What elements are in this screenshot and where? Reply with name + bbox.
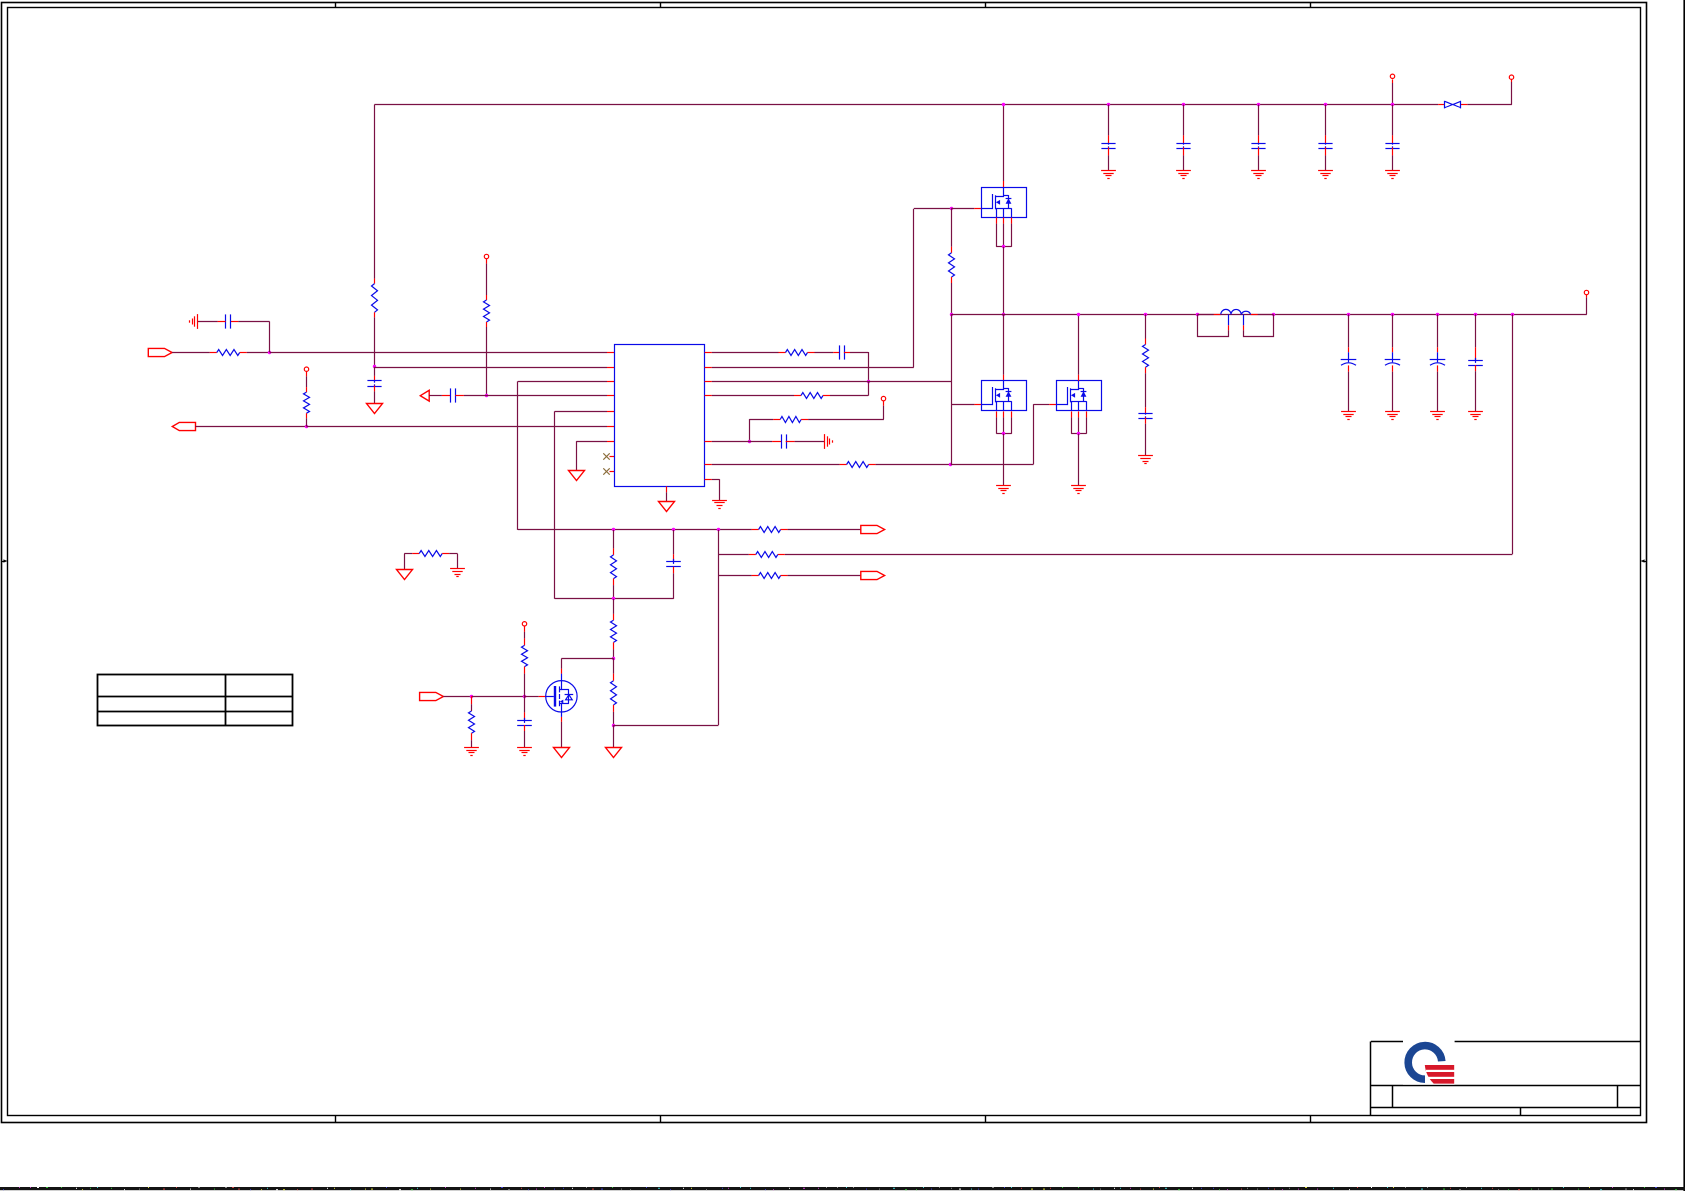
wire C5 to side ground xyxy=(786,441,795,443)
wire T1 to R3 xyxy=(486,259,488,300)
terminal T5 VIN right xyxy=(1509,75,1513,79)
node D junction xyxy=(305,425,308,428)
terminal T7 xyxy=(522,622,526,626)
wire node W to Q4 gate xyxy=(524,696,539,698)
wire pin5 drop xyxy=(555,411,615,598)
wire rail to C7 xyxy=(1183,105,1185,144)
wire node B to pin xyxy=(270,352,607,354)
capacitor C4 xyxy=(839,345,841,359)
wire P1 to R1 xyxy=(172,352,210,354)
wire C11 to ground xyxy=(1145,417,1147,455)
footer noise strip xyxy=(0,1187,1685,1190)
transistor Q3 xyxy=(1057,381,1102,411)
wire T3 to R9 xyxy=(801,401,884,420)
capacitor C9 xyxy=(1318,143,1332,145)
node Q junction xyxy=(1196,313,1199,316)
ground triangle pin7 xyxy=(569,471,585,481)
wire R7 to C4 xyxy=(815,352,834,354)
resistor R13 xyxy=(611,659,617,726)
wire SW mid rail xyxy=(951,314,1587,316)
wire node U to fb vertical xyxy=(614,725,719,727)
ground triangle under C2 xyxy=(367,404,383,414)
wire pin2R to M1 gate xyxy=(712,209,951,368)
resistor R12 xyxy=(611,599,617,659)
node A3 junction xyxy=(717,528,720,531)
terminal T1 xyxy=(484,254,488,258)
ground earth Q3 xyxy=(1071,485,1086,487)
transistor Q2 xyxy=(982,381,1027,411)
node S junction xyxy=(1511,313,1514,316)
node E junction xyxy=(867,380,870,383)
capacitor C11 xyxy=(1138,413,1152,415)
pin U1 right 1 xyxy=(705,352,712,354)
wire arrow to C3 xyxy=(429,395,442,397)
wire C10 to ground xyxy=(1392,147,1394,170)
pin U1 left 1 xyxy=(607,352,614,354)
resistor R18 xyxy=(522,645,528,666)
node U junction xyxy=(612,724,615,727)
node N junction xyxy=(1077,313,1080,316)
node B1 junction xyxy=(612,597,615,600)
wire VIN drop left xyxy=(374,105,376,284)
wire node U to ground xyxy=(613,725,615,747)
wire rail to C12 xyxy=(1348,314,1350,354)
wire R5 to mid rail xyxy=(951,277,953,314)
wire pin4R to R8 xyxy=(712,395,794,397)
ground triangle node U xyxy=(606,748,622,758)
resistor R15 xyxy=(749,552,785,558)
wire VOUT sense drop xyxy=(785,314,1513,554)
resistor R5 xyxy=(949,253,955,277)
capacitor C7 xyxy=(1176,143,1190,145)
pin U1 left 6 xyxy=(607,426,614,428)
wire R10 to node H xyxy=(876,464,951,466)
wire C17 to ground xyxy=(524,725,526,731)
wire pin7 to ground xyxy=(576,441,614,470)
node H junction xyxy=(949,463,952,466)
wire node F to Q1 gate xyxy=(951,208,974,210)
ground earth U1 right xyxy=(712,500,727,502)
wire node E down xyxy=(868,381,870,395)
wire Q3 drain from rail xyxy=(1078,314,1080,380)
node M junction xyxy=(1002,432,1005,435)
wire fb vertical xyxy=(718,530,720,725)
pin U1 right 8 xyxy=(705,464,712,466)
node C junction xyxy=(485,394,488,397)
wire node A to C2 xyxy=(374,367,376,382)
company logo xyxy=(1403,1040,1455,1084)
node F junction xyxy=(950,207,953,210)
pin U1 left 2 xyxy=(607,367,614,369)
wire C15 to ground xyxy=(1475,365,1477,411)
wire rail to C8 xyxy=(1258,105,1260,144)
ground earth C17 xyxy=(517,747,532,749)
wire Q4 drain xyxy=(561,659,614,681)
revision table xyxy=(98,675,293,726)
no-connect pin X1 xyxy=(603,453,614,459)
page right edge line xyxy=(1683,0,1685,1191)
resistor R11 xyxy=(611,530,617,599)
wire SW rail to terminal xyxy=(1586,295,1588,315)
ground side left of C1 xyxy=(197,314,199,329)
ground earth R19 right xyxy=(450,568,465,570)
node V junction xyxy=(470,695,473,698)
ground earth R17 xyxy=(464,747,479,749)
node L junction xyxy=(1002,313,1005,316)
wire node W to C17 xyxy=(524,696,526,720)
resistor R8 xyxy=(794,393,830,399)
capacitor C2 xyxy=(367,380,381,382)
wire T2 to R4 xyxy=(306,371,308,392)
node K junction xyxy=(1002,245,1005,248)
wire Q2 source tie xyxy=(996,411,1011,433)
wire C4 to node E xyxy=(844,352,869,381)
resistor R2 xyxy=(372,284,378,313)
wire R6 to C11 xyxy=(1145,367,1147,413)
port P5 xyxy=(420,692,444,700)
wire R3 to node C xyxy=(486,322,488,396)
wire R9 to node G xyxy=(749,419,780,441)
wire Q2 source to ground xyxy=(1003,434,1005,486)
ground triangle U1 bottom xyxy=(659,502,675,512)
wire gate net vertical xyxy=(951,209,953,253)
port P1 input xyxy=(148,348,172,356)
wire mid rail to Q2 drain xyxy=(1003,314,1005,380)
wire R8 to node E xyxy=(830,395,868,397)
wire C3 to node C xyxy=(455,395,464,397)
transistor Q1 xyxy=(982,188,1027,218)
resistor R6 xyxy=(1143,345,1149,368)
resistor R10 xyxy=(840,462,876,468)
wire C12 to ground xyxy=(1348,365,1350,411)
ground earth top2 xyxy=(1176,170,1191,172)
node R junction xyxy=(1272,313,1275,316)
ground earth out3 xyxy=(1430,411,1445,413)
node out3 junction xyxy=(1436,313,1439,316)
capacitor C10 xyxy=(1385,143,1399,145)
inductor L1 xyxy=(1198,309,1274,336)
wire Q1 drain from rail xyxy=(1003,105,1005,187)
node A junction xyxy=(373,365,376,368)
capacitor C16 xyxy=(666,561,681,563)
node O junction xyxy=(1077,432,1080,435)
fuse F1 xyxy=(1438,101,1467,109)
wire pin9R to ground xyxy=(712,479,720,500)
wire R16 to port P4 xyxy=(788,575,861,577)
ground triangle R19 left xyxy=(397,570,413,580)
wire pin8R to R10 xyxy=(712,464,840,466)
ground earth top5 xyxy=(1385,170,1400,172)
wire VIN rail right of fuse xyxy=(1467,104,1512,106)
pin U1 bottom xyxy=(666,486,668,492)
node J junction top rail xyxy=(1002,103,1005,106)
wire bottom pin to ground xyxy=(666,492,668,501)
ground earth out2 xyxy=(1385,411,1400,413)
capacitor C17 xyxy=(517,720,532,722)
pin U1 right 4 xyxy=(705,395,712,397)
wire Q1 source to mid rail xyxy=(1003,247,1005,315)
wire terminal T4 stub xyxy=(1392,80,1394,105)
ground earth out1 xyxy=(1341,411,1356,413)
wire rail to C14 xyxy=(1437,314,1439,354)
pin U1 right 9 xyxy=(705,479,712,481)
wire pin7R to node G xyxy=(712,441,750,443)
wire C16 to wire B xyxy=(673,567,675,574)
node T junction xyxy=(612,657,615,660)
wire rail to C13 xyxy=(1392,314,1394,354)
terminal T4 above cap bank xyxy=(1390,74,1394,78)
pin U1 left 4 xyxy=(607,395,614,397)
resistor R19 ground tie xyxy=(404,551,457,570)
resistor R16 xyxy=(752,573,788,579)
capacitor C14 polarized xyxy=(1430,359,1446,361)
wire R1 to node B xyxy=(247,352,270,354)
wire R4 to node D xyxy=(306,413,308,426)
capacitor C13 polarized xyxy=(1385,359,1401,361)
capacitor C15 xyxy=(1468,360,1483,362)
border center arrow left xyxy=(2,559,8,562)
port P3 xyxy=(861,525,885,533)
wire VIN top rail xyxy=(374,104,1438,106)
ground earth top3 xyxy=(1251,170,1266,172)
wire drop x517 xyxy=(517,381,519,530)
node top3 junction xyxy=(1257,103,1260,106)
wire C2 to ground xyxy=(374,386,376,404)
wire rail to C6 xyxy=(1108,105,1110,144)
capacitor C6 xyxy=(1101,143,1115,145)
wire B row xyxy=(555,598,674,600)
ground earth top4 xyxy=(1318,170,1333,172)
node A2 junction xyxy=(672,528,675,531)
capacitor C12 polarized xyxy=(1341,359,1357,361)
capacitor C8 xyxy=(1251,143,1265,145)
pin U1 right 7 xyxy=(705,441,712,443)
node out4 junction xyxy=(1474,313,1477,316)
wire R14 to port P3 xyxy=(788,529,861,531)
no-connect pin X2 xyxy=(603,468,614,474)
node top2 junction xyxy=(1182,103,1185,106)
wire pin3R to gate net xyxy=(712,381,951,383)
ground earth out4 xyxy=(1468,411,1483,413)
wire C6 to ground xyxy=(1108,147,1110,170)
node out2 junction xyxy=(1391,313,1394,316)
capacitor C16 link xyxy=(673,530,675,562)
resistor R9 xyxy=(780,417,801,423)
terminal T3 xyxy=(881,396,885,400)
resistor R3 xyxy=(484,300,490,322)
ground earth top1 xyxy=(1101,170,1116,172)
border zone ticks xyxy=(336,2,1311,1123)
wire node A to pin2 xyxy=(374,367,607,369)
node G junction xyxy=(748,440,751,443)
wire C14 to ground xyxy=(1437,365,1439,411)
ground triangle Q4 source xyxy=(554,748,570,758)
pin U1 right 3 xyxy=(705,381,712,383)
node P junction xyxy=(1144,313,1147,316)
wire A vout sense row xyxy=(518,529,752,531)
node out1 junction xyxy=(1347,313,1350,316)
wire node D to pin6 xyxy=(307,426,608,428)
wire rail to C10 xyxy=(1392,105,1394,144)
wire node C to pin4 xyxy=(487,395,608,397)
node top5 junction xyxy=(1391,103,1394,106)
wire node G to C5 xyxy=(749,441,772,443)
node I junction xyxy=(950,313,953,316)
wire C13 to ground xyxy=(1392,365,1394,411)
wire Q3 source to ground xyxy=(1078,434,1080,486)
resistor R1 xyxy=(210,350,247,356)
wire C8 to ground xyxy=(1258,147,1260,170)
transistor Q4 xyxy=(546,681,577,712)
wire P5 to node V xyxy=(443,696,471,698)
wire Q3 source tie xyxy=(1071,411,1086,433)
wire VIN rail stub to terminal xyxy=(1511,80,1513,105)
wire node B up to C1 xyxy=(230,322,269,353)
wire row 575 to R16 xyxy=(718,575,751,577)
node top1 junction xyxy=(1107,103,1110,106)
wire T7 to R18 xyxy=(524,626,526,646)
wire R2 to node A xyxy=(374,312,376,367)
arrow NC left xyxy=(420,390,429,401)
wire P2 to node D xyxy=(195,426,306,428)
terminal T2 xyxy=(304,367,308,371)
port P2 output xyxy=(172,422,195,430)
wire rail to R6 xyxy=(1145,314,1147,344)
resistor R17 xyxy=(469,696,475,747)
wire R18 to node W xyxy=(524,667,526,697)
capacitor C1 xyxy=(225,314,227,328)
wire C1 to side ground xyxy=(218,321,226,323)
port P4 xyxy=(861,571,885,579)
ground earth snubber xyxy=(1138,455,1153,457)
op-amp U1 main regulator IC xyxy=(615,345,705,487)
border center arrow right xyxy=(1641,559,1647,562)
wire Q1 source tie xyxy=(996,218,1011,247)
wire node H to Q3 gate xyxy=(951,404,1056,464)
resistor R14 xyxy=(752,527,788,533)
node top4 junction xyxy=(1324,103,1327,106)
ground side right of C5 xyxy=(824,434,826,449)
pin U1 right 2 xyxy=(705,367,712,369)
wire R15 to fb vertical xyxy=(718,554,748,556)
wire rail to C15 xyxy=(1475,314,1477,360)
terminal T6 SW right xyxy=(1584,290,1588,294)
node W junction xyxy=(523,695,526,698)
node B junction xyxy=(268,351,271,354)
resistor R4 xyxy=(304,392,310,413)
ground earth Q2 xyxy=(996,485,1011,487)
wire node I down gate chain xyxy=(951,314,981,464)
wire pin3 to drop xyxy=(518,381,614,383)
capacitor C5 xyxy=(781,434,783,448)
title block xyxy=(1371,1042,1641,1116)
resistor R7 xyxy=(779,350,815,356)
wire Q4 source to ground xyxy=(561,712,563,747)
node A1 junction xyxy=(612,528,615,531)
wire node V to node W xyxy=(472,696,524,698)
capacitor C3 xyxy=(450,388,452,402)
wire rail to C9 xyxy=(1325,105,1327,144)
wire C9 to ground xyxy=(1325,147,1327,170)
wire pin1R to R7 xyxy=(712,352,779,354)
wire C7 to ground xyxy=(1183,147,1185,170)
